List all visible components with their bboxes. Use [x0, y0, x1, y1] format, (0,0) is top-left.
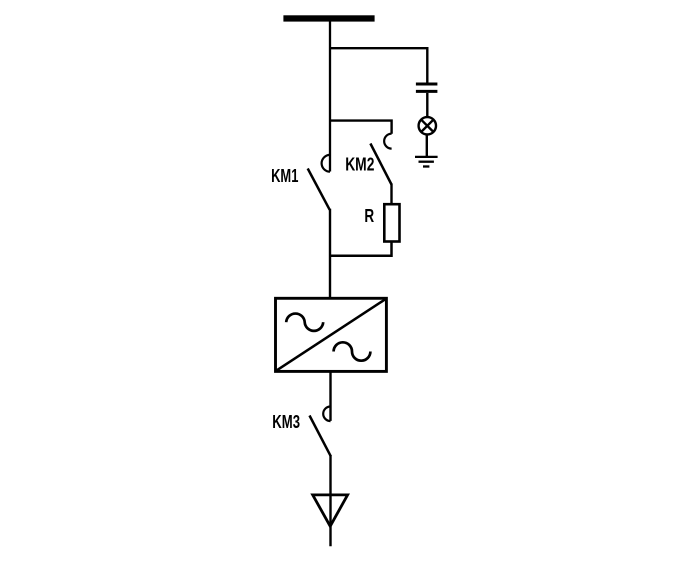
wire: branch to capacitor/lamp: [329, 48, 427, 82]
AC sine symbol (top-left): [286, 314, 323, 331]
busbar: [283, 15, 374, 21]
contactor KM3 fixed-contact hook: [323, 407, 330, 422]
contactor KM1 fixed-contact hook: [322, 155, 330, 172]
AC sine symbol (bottom-right): [334, 342, 371, 360]
converter U1 (box with diagonal): [276, 298, 387, 371]
wire: branch to KM2: [329, 121, 392, 134]
wire: capacitor to lamp: [426, 93, 428, 118]
outgoing feeder arrow (down triangle): [313, 495, 348, 526]
svg-text:KM2: KM2: [345, 155, 374, 175]
contactor KM2 blade: [370, 144, 391, 185]
wire: KM2 to resistor: [390, 184, 392, 206]
contactor KM3 blade: [310, 416, 331, 457]
lamp (circle with X): [419, 117, 436, 134]
ground: [415, 157, 438, 167]
wire: converter to KM3 fixed contact: [329, 371, 331, 421]
resistor R: [384, 204, 399, 241]
wire: busbar down to KM1 fixed contact: [329, 21, 331, 172]
svg-text:KM3: KM3: [272, 412, 300, 432]
wire: resistor down and back to main line: [329, 242, 392, 256]
capacitor C: [416, 84, 438, 91]
contactor KM1 blade: [308, 169, 330, 210]
wire: KM1 to converter: [329, 209, 331, 299]
wire: KM3 through arrow to feeder end: [329, 455, 331, 546]
svg-text:R: R: [364, 206, 374, 226]
wire: lamp to ground: [426, 134, 428, 156]
svg-text:KM1: KM1: [271, 166, 298, 186]
contactor KM2 fixed-contact hook: [384, 134, 391, 149]
